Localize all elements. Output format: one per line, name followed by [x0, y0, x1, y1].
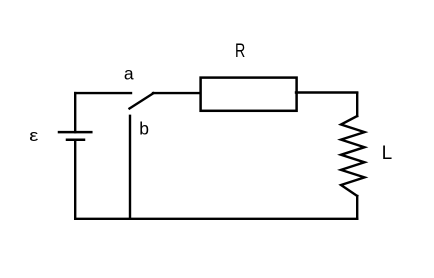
svg-text:R: R: [235, 40, 245, 61]
svg-text:a: a: [124, 63, 134, 83]
svg-text:b: b: [139, 118, 149, 138]
svg-text:L: L: [382, 143, 393, 164]
svg-text:ε: ε: [29, 126, 39, 145]
